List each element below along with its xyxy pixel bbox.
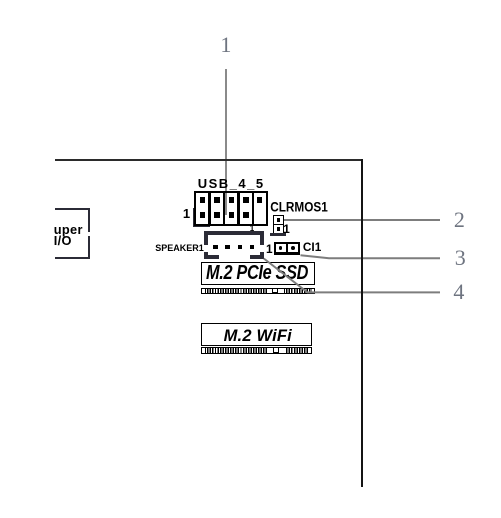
Super I/O chip (partial) bbox=[55, 208, 90, 260]
SPEAKER1 pins bbox=[213, 245, 217, 249]
callout 3 line bbox=[301, 255, 441, 258]
Super I/O label bbox=[54, 224, 83, 247]
callout 2 leader line bbox=[283, 219, 440, 221]
callout 4 number bbox=[453, 281, 464, 303]
SPEAKER1 bottom feet bbox=[204, 255, 219, 260]
callout 1 leader line bbox=[225, 69, 227, 215]
USB pins col4 bbox=[243, 197, 248, 203]
CLRMOS1 jumper bottom cell bbox=[273, 224, 284, 233]
USB pin1 label bbox=[183, 207, 190, 220]
callout 1 number bbox=[220, 34, 231, 56]
CI1 pin dots bbox=[279, 246, 283, 250]
USB pins col3 bbox=[229, 197, 234, 203]
USB_4_5 cell 4 bbox=[240, 193, 252, 223]
USB_4_5 cell 3 bbox=[225, 193, 237, 223]
USB_4_5 header body bbox=[194, 191, 268, 225]
USB pins col2 bbox=[214, 197, 219, 203]
CLRMOS1 base bar bbox=[270, 233, 286, 236]
CI1 jumper bbox=[274, 242, 301, 255]
SPEAKER1 header shell bbox=[204, 231, 264, 259]
callout 3 number bbox=[455, 247, 466, 269]
CI1 label bbox=[303, 242, 321, 254]
USB_4_5 cell 2 bbox=[211, 193, 223, 223]
CI1 pin1 label bbox=[266, 244, 273, 256]
CLRMOS1 pin1 label bbox=[283, 224, 290, 236]
M.2 PCIe SSD label bbox=[206, 263, 308, 283]
M.2 WiFi socket bbox=[201, 323, 313, 347]
USB_4_5 cell 5 bbox=[254, 193, 266, 223]
CLRMOS1 pin dots bbox=[277, 218, 281, 222]
leader line 1 tail over header bbox=[225, 193, 227, 215]
M.2 WiFi edge pins strip bbox=[201, 347, 313, 354]
M.2 PCIe SSD edge pins strip bbox=[201, 288, 315, 294]
M.2 WiFi key notch bbox=[273, 348, 279, 353]
CLRMOS1 jumper top cell bbox=[273, 215, 284, 224]
M.2 PCIe SSD socket bbox=[201, 262, 315, 286]
M.2 WiFi label bbox=[224, 328, 292, 345]
M.2 SSD key notch bbox=[272, 289, 279, 293]
Super I/O border notch bbox=[86, 232, 90, 237]
board right edge bbox=[361, 159, 363, 487]
CLRMOS1 label bbox=[270, 201, 328, 215]
USB_4_5 cell 1 bbox=[196, 193, 208, 223]
USB_4_5 label bbox=[198, 177, 265, 190]
SPEAKER1 pin1 small label above bbox=[250, 225, 254, 233]
USB pin col5 (top only) bbox=[257, 197, 262, 203]
board top edge bbox=[55, 159, 363, 161]
USB_4_5 header pin1 corner marker bbox=[193, 208, 196, 227]
callout 4 line bbox=[264, 259, 440, 293]
SPEAKER1 label bbox=[155, 244, 204, 253]
callout 2 number bbox=[454, 209, 465, 231]
SPEAKER1 side notches bbox=[204, 245, 209, 252]
USB pins col1 bbox=[200, 197, 205, 203]
